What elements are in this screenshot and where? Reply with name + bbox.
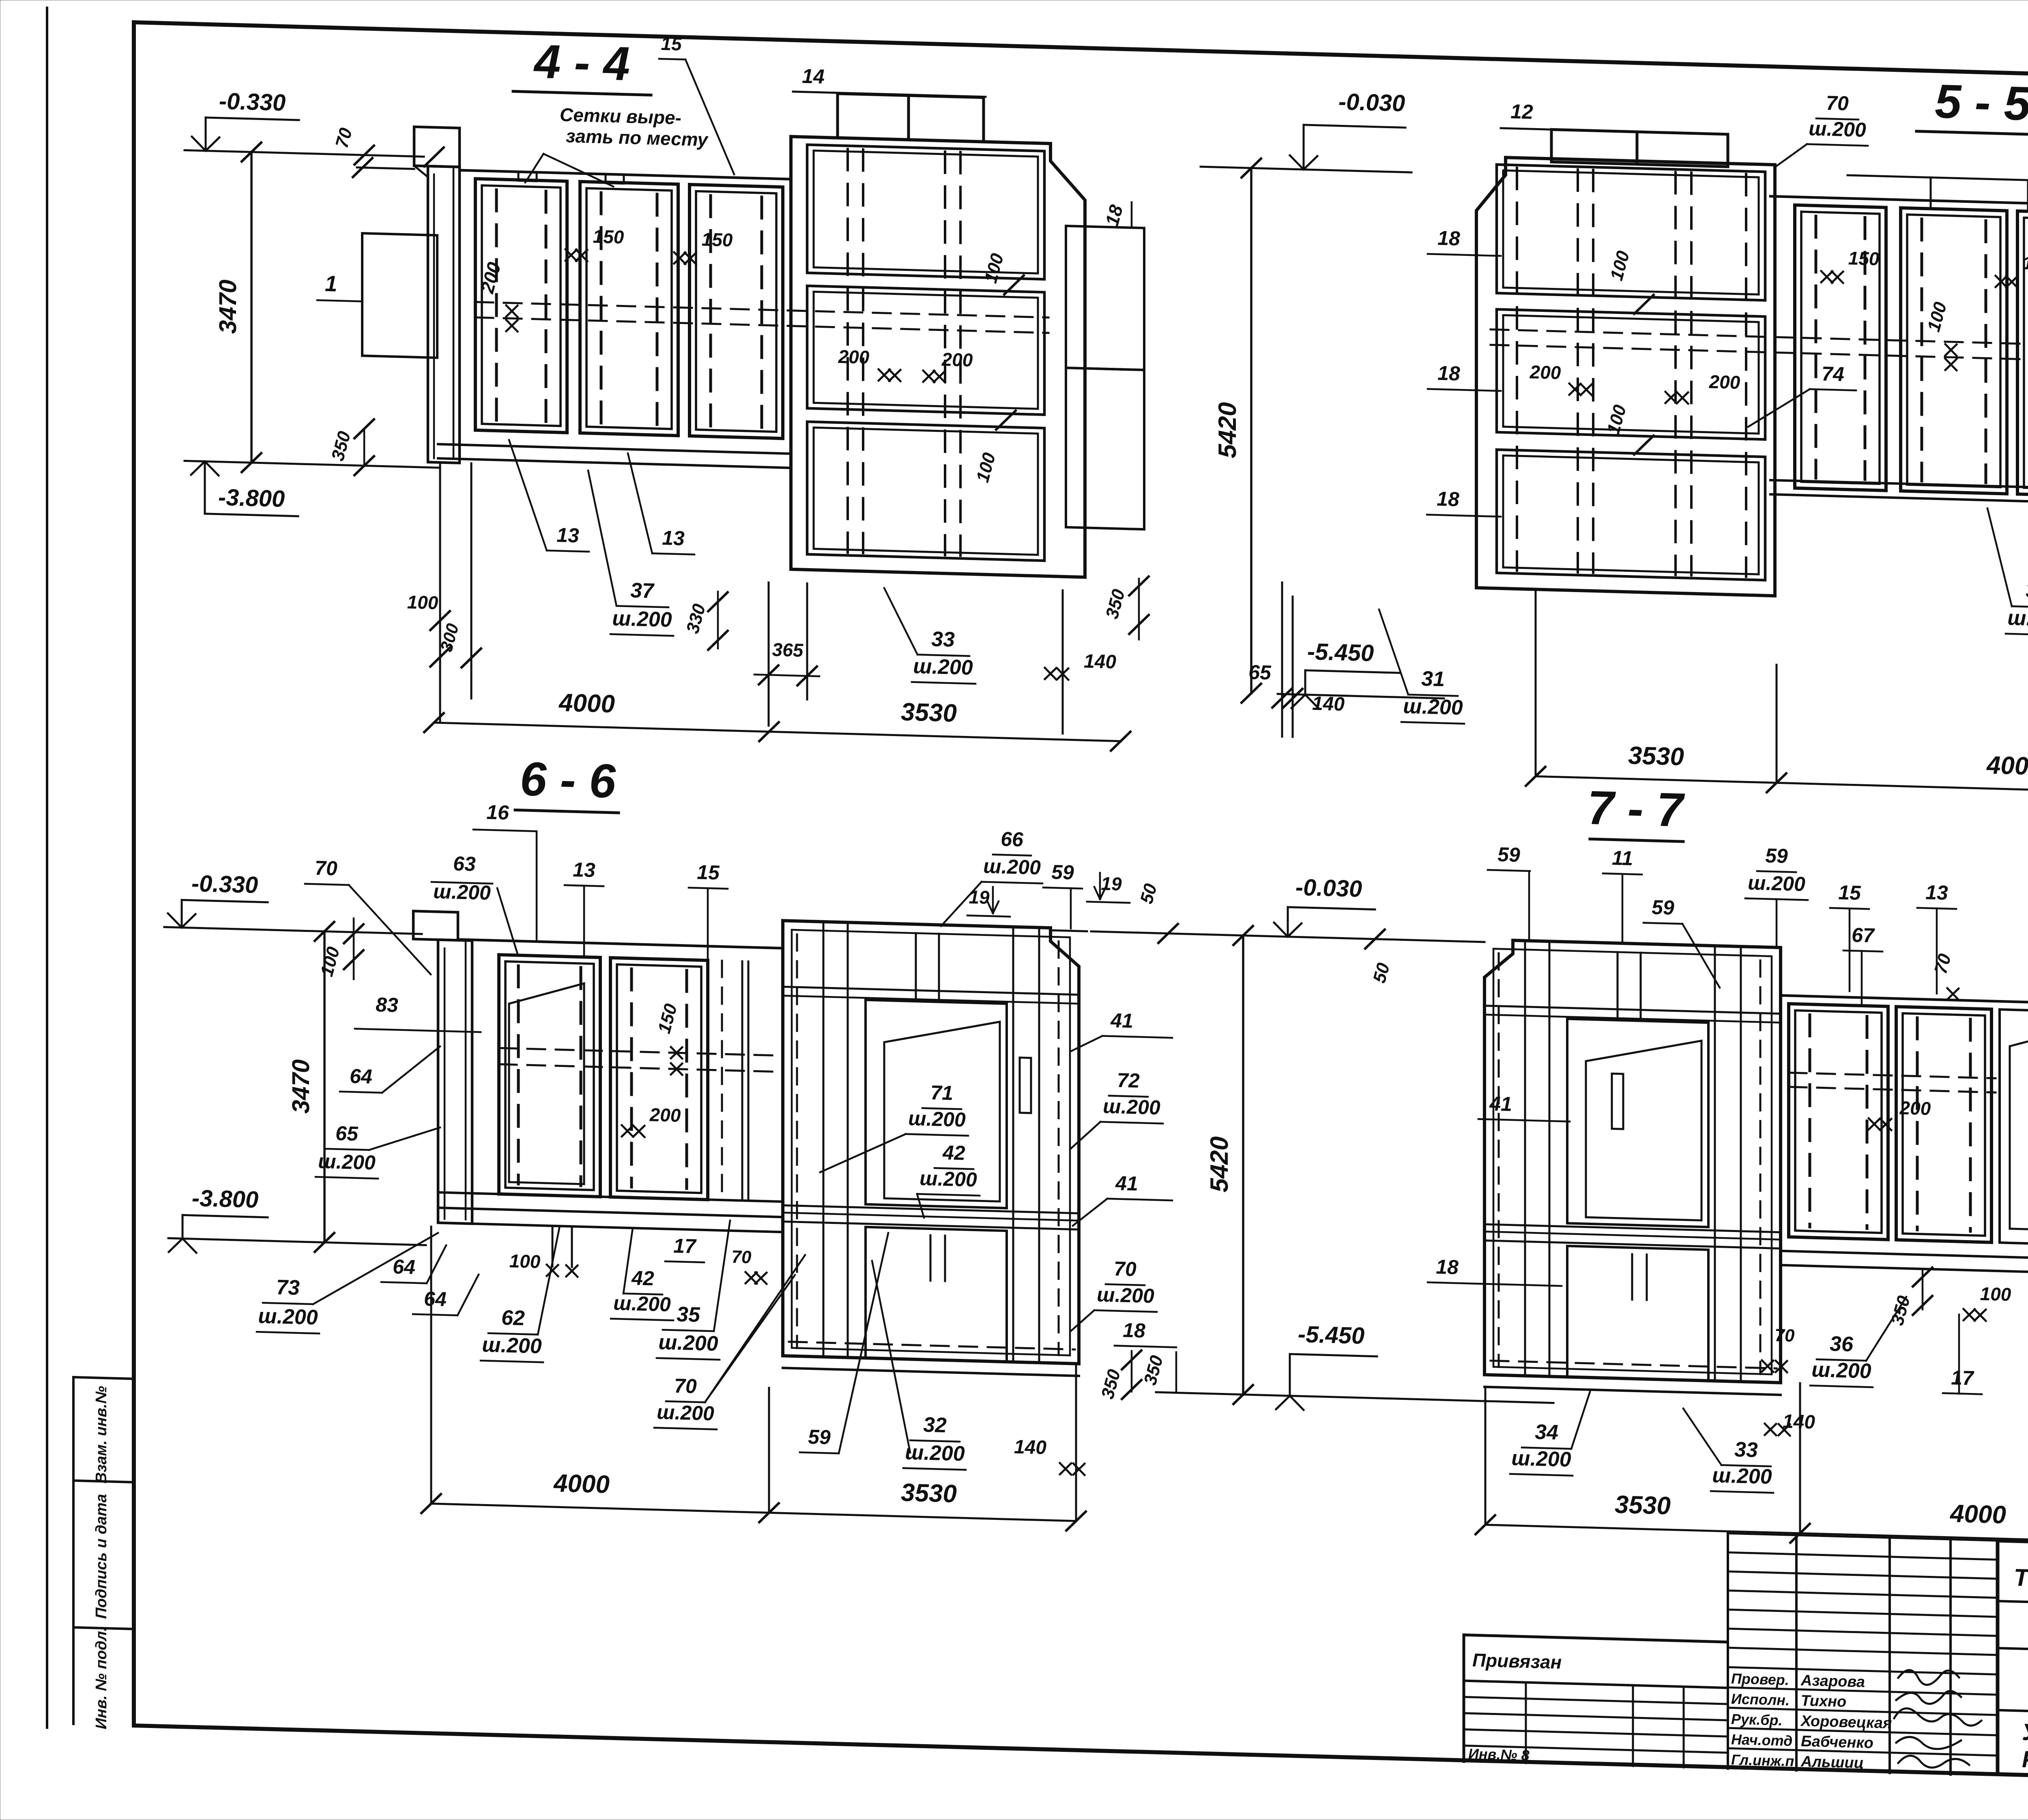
- svg-text:1: 1: [325, 271, 337, 296]
- svg-text:ш.200: ш.200: [905, 1440, 965, 1466]
- svg-text:4000: 4000: [1986, 751, 2028, 781]
- svg-text:-0.330: -0.330: [219, 88, 286, 116]
- svg-text:Альшиц: Альшиц: [1800, 1753, 1864, 1772]
- svg-text:35: 35: [2026, 579, 2028, 603]
- svg-text:59: 59: [1497, 843, 1520, 866]
- svg-text:ш.200: ш.200: [1809, 117, 1866, 142]
- svg-text:ш.200: ш.200: [482, 1333, 541, 1358]
- svg-text:32: 32: [923, 1413, 947, 1438]
- svg-text:17: 17: [1951, 1366, 1974, 1390]
- svg-text:-0.030: -0.030: [1295, 874, 1362, 902]
- svg-text:-0.030: -0.030: [1338, 88, 1405, 116]
- svg-text:150: 150: [702, 229, 733, 251]
- svg-text:200: 200: [1530, 361, 1561, 383]
- svg-text:Тихно: Тихно: [1801, 1692, 1846, 1711]
- svg-text:Подпись и дата: Подпись и дата: [93, 1494, 110, 1619]
- svg-text:Рук.бр.: Рук.бр.: [1731, 1711, 1783, 1728]
- svg-text:70: 70: [1826, 92, 1849, 115]
- svg-text:33: 33: [931, 627, 955, 652]
- svg-text:200: 200: [838, 346, 870, 368]
- svg-text:100: 100: [509, 1250, 541, 1272]
- svg-text:18: 18: [1123, 1319, 1145, 1342]
- svg-text:ш.200: ш.200: [1748, 871, 1805, 895]
- svg-text:70: 70: [732, 1247, 752, 1267]
- svg-text:Бабченко: Бабченко: [1801, 1733, 1873, 1752]
- svg-text:Инв.№ 8: Инв.№ 8: [1468, 1745, 1530, 1764]
- svg-text:5 - 5: 5 - 5: [1935, 75, 2028, 131]
- svg-text:41: 41: [1110, 1009, 1133, 1032]
- svg-text:ш.200: ш.200: [1712, 1464, 1772, 1489]
- svg-text:ш.200: ш.200: [908, 1107, 966, 1131]
- svg-text:15: 15: [697, 861, 720, 884]
- svg-text:140: 140: [1084, 650, 1116, 673]
- svg-text:ш.200: ш.200: [1103, 1095, 1160, 1119]
- svg-text:72: 72: [1117, 1069, 1140, 1092]
- svg-text:ш.200: ш.200: [657, 1401, 714, 1425]
- svg-text:63: 63: [453, 852, 476, 875]
- svg-text:Инв. № подл.: Инв. № подл.: [93, 1627, 110, 1730]
- svg-text:64: 64: [393, 1255, 415, 1278]
- svg-text:16: 16: [486, 801, 509, 824]
- svg-text:зать по месту: зать по месту: [566, 125, 709, 150]
- svg-text:11: 11: [1612, 846, 1633, 869]
- svg-text:ш.200: ш.200: [983, 855, 1041, 879]
- svg-text:13: 13: [556, 524, 579, 547]
- svg-text:5420: 5420: [1205, 1136, 1233, 1193]
- svg-text:18: 18: [1437, 487, 1459, 511]
- svg-text:13: 13: [573, 858, 595, 881]
- svg-text:Гл.инж.п: Гл.инж.п: [1731, 1751, 1794, 1769]
- svg-text:ш.200: ш.200: [1403, 695, 1463, 720]
- svg-text:3470: 3470: [287, 1059, 314, 1114]
- svg-text:ш.200: ш.200: [318, 1150, 376, 1174]
- svg-text:ш.200: ш.200: [2007, 606, 2028, 631]
- svg-text:ш.200: ш.200: [658, 1331, 718, 1356]
- svg-text:59: 59: [1652, 896, 1674, 919]
- svg-text:3530: 3530: [1628, 741, 1684, 771]
- svg-text:83: 83: [376, 993, 398, 1016]
- svg-text:140: 140: [1312, 693, 1345, 715]
- svg-text:65: 65: [1248, 661, 1272, 684]
- svg-text:-3.800: -3.800: [218, 484, 285, 512]
- svg-text:150: 150: [2023, 252, 2028, 274]
- svg-text:35: 35: [677, 1303, 700, 1327]
- svg-text:200: 200: [649, 1104, 681, 1126]
- svg-text:64: 64: [350, 1065, 372, 1088]
- svg-text:36: 36: [1830, 1332, 1854, 1356]
- svg-text:33: 33: [1734, 1438, 1758, 1462]
- svg-text:18: 18: [1436, 1256, 1459, 1279]
- svg-text:100: 100: [1980, 1283, 2011, 1305]
- svg-text:3530: 3530: [901, 698, 957, 728]
- svg-text:15: 15: [661, 33, 682, 54]
- svg-text:-5.450: -5.450: [1307, 638, 1374, 666]
- svg-text:365: 365: [772, 639, 804, 661]
- svg-text:73: 73: [276, 1275, 300, 1300]
- svg-text:ш.200: ш.200: [612, 607, 672, 632]
- svg-text:65: 65: [335, 1122, 359, 1145]
- svg-text:200: 200: [941, 349, 973, 371]
- svg-text:Азарова: Азарова: [1800, 1672, 1865, 1691]
- svg-text:4000: 4000: [1949, 1500, 2006, 1529]
- svg-text:4000: 4000: [558, 689, 615, 718]
- svg-text:19: 19: [969, 886, 990, 908]
- svg-text:42: 42: [631, 1266, 654, 1290]
- svg-text:3530: 3530: [1615, 1491, 1671, 1520]
- svg-text:-5.450: -5.450: [1298, 1321, 1364, 1349]
- svg-text:-3.800: -3.800: [192, 1185, 258, 1213]
- svg-text:3530: 3530: [901, 1479, 957, 1508]
- svg-text:ш.200: ш.200: [1811, 1358, 1871, 1383]
- svg-text:41: 41: [1489, 1092, 1512, 1116]
- svg-text:67: 67: [1852, 923, 1875, 947]
- svg-text:6 - 6: 6 - 6: [520, 752, 616, 808]
- svg-text:41: 41: [1115, 1172, 1138, 1195]
- svg-text:-0.330: -0.330: [191, 870, 258, 898]
- svg-text:14: 14: [802, 64, 825, 88]
- svg-text:ш.200: ш.200: [919, 1167, 977, 1191]
- svg-text:ш.200: ш.200: [433, 880, 491, 904]
- svg-text:Взам. инв.№: Взам. инв.№: [93, 1386, 110, 1484]
- svg-text:7 - 7: 7 - 7: [1588, 781, 1685, 837]
- svg-text:70: 70: [1114, 1257, 1136, 1280]
- svg-text:42: 42: [942, 1141, 965, 1165]
- svg-text:15: 15: [1838, 881, 1861, 904]
- svg-text:13: 13: [662, 526, 685, 549]
- svg-text:70: 70: [1775, 1325, 1795, 1346]
- svg-text:74: 74: [1822, 362, 1844, 385]
- svg-text:200: 200: [1899, 1097, 1931, 1119]
- svg-text:37: 37: [630, 579, 655, 603]
- svg-text:13: 13: [1925, 881, 1948, 904]
- svg-text:Провер.: Провер.: [1731, 1670, 1789, 1688]
- svg-text:3470: 3470: [214, 279, 241, 334]
- svg-text:150: 150: [593, 226, 624, 248]
- svg-text:ш.200: ш.200: [1511, 1447, 1571, 1472]
- svg-text:62: 62: [501, 1306, 525, 1330]
- svg-text:17: 17: [673, 1234, 697, 1258]
- svg-text:4000: 4000: [553, 1469, 610, 1499]
- svg-text:Хоровецкая: Хоровецкая: [1800, 1713, 1892, 1732]
- svg-text:59: 59: [808, 1425, 831, 1449]
- svg-text:ш.200: ш.200: [913, 655, 973, 680]
- svg-text:59: 59: [1765, 844, 1788, 867]
- svg-text:12: 12: [1510, 100, 1533, 123]
- svg-text:18: 18: [1437, 227, 1460, 250]
- svg-text:140: 140: [1014, 1436, 1046, 1459]
- svg-text:71: 71: [930, 1081, 953, 1104]
- svg-text:ш.200: ш.200: [258, 1304, 318, 1329]
- svg-text:100: 100: [407, 591, 438, 613]
- svg-text:70: 70: [315, 856, 337, 880]
- svg-text:200: 200: [1709, 371, 1740, 393]
- svg-text:Привязан: Привязан: [1472, 1649, 1562, 1673]
- svg-text:ш.200: ш.200: [613, 1292, 671, 1316]
- svg-text:ш.200: ш.200: [1097, 1283, 1154, 1307]
- svg-text:66: 66: [1001, 828, 1024, 851]
- svg-text:4 - 4: 4 - 4: [533, 35, 630, 91]
- svg-text:Исполн.: Исполн.: [1731, 1690, 1790, 1708]
- svg-text:Сетки выре-: Сетки выре-: [560, 104, 681, 128]
- svg-text:64: 64: [424, 1287, 447, 1310]
- svg-text:140: 140: [1783, 1411, 1815, 1433]
- svg-text:5420: 5420: [1214, 402, 1242, 459]
- svg-text:34: 34: [1535, 1420, 1558, 1444]
- svg-text:150: 150: [1848, 247, 1880, 269]
- svg-text:70: 70: [674, 1374, 697, 1397]
- svg-text:18: 18: [1437, 362, 1460, 385]
- svg-text:31: 31: [1421, 667, 1445, 691]
- svg-text:59: 59: [1051, 861, 1074, 884]
- svg-text:Нач.отд: Нач.отд: [1731, 1731, 1792, 1749]
